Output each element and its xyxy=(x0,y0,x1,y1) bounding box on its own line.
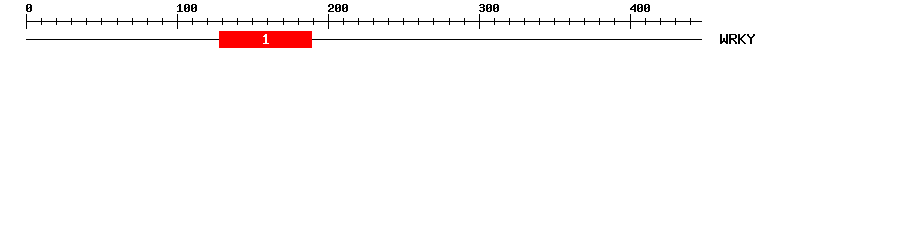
ruler label 100 xyxy=(177,4,197,12)
ruler label 400 xyxy=(630,4,650,12)
ruler major tick 100 xyxy=(177,14,178,29)
ruler major tick 0 xyxy=(26,14,27,29)
ruler scale line xyxy=(26,21,702,22)
protein backbone line xyxy=(26,39,702,40)
ruler label 200 xyxy=(328,4,348,12)
ruler label 0 xyxy=(26,4,32,12)
ruler major tick 200 xyxy=(328,14,329,29)
ruler minor ticks (every 10 aa) xyxy=(41,18,691,25)
ruler major tick 400 xyxy=(630,14,631,29)
ruler major tick 300 xyxy=(479,14,480,29)
domain number label 1 xyxy=(263,34,269,44)
ruler label 300 xyxy=(479,4,499,12)
family name label WRKY xyxy=(720,34,755,44)
WRKY domain box 1 (red) xyxy=(219,31,312,48)
